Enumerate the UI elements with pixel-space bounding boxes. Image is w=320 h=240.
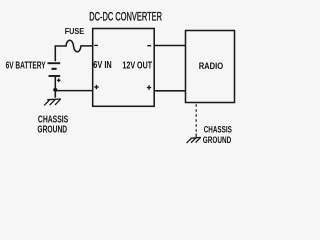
svg-text:GROUND: GROUND xyxy=(203,134,232,145)
svg-text:6V BATTERY: 6V BATTERY xyxy=(6,60,46,71)
svg-text:RADIO: RADIO xyxy=(199,60,224,71)
svg-text:GROUND: GROUND xyxy=(37,125,67,136)
svg-text:12V OUT: 12V OUT xyxy=(122,61,152,72)
svg-text:DC-DC CONVERTER: DC-DC CONVERTER xyxy=(89,10,162,24)
svg-text:6V IN: 6V IN xyxy=(93,60,111,71)
svg-text:FUSE: FUSE xyxy=(65,26,85,36)
